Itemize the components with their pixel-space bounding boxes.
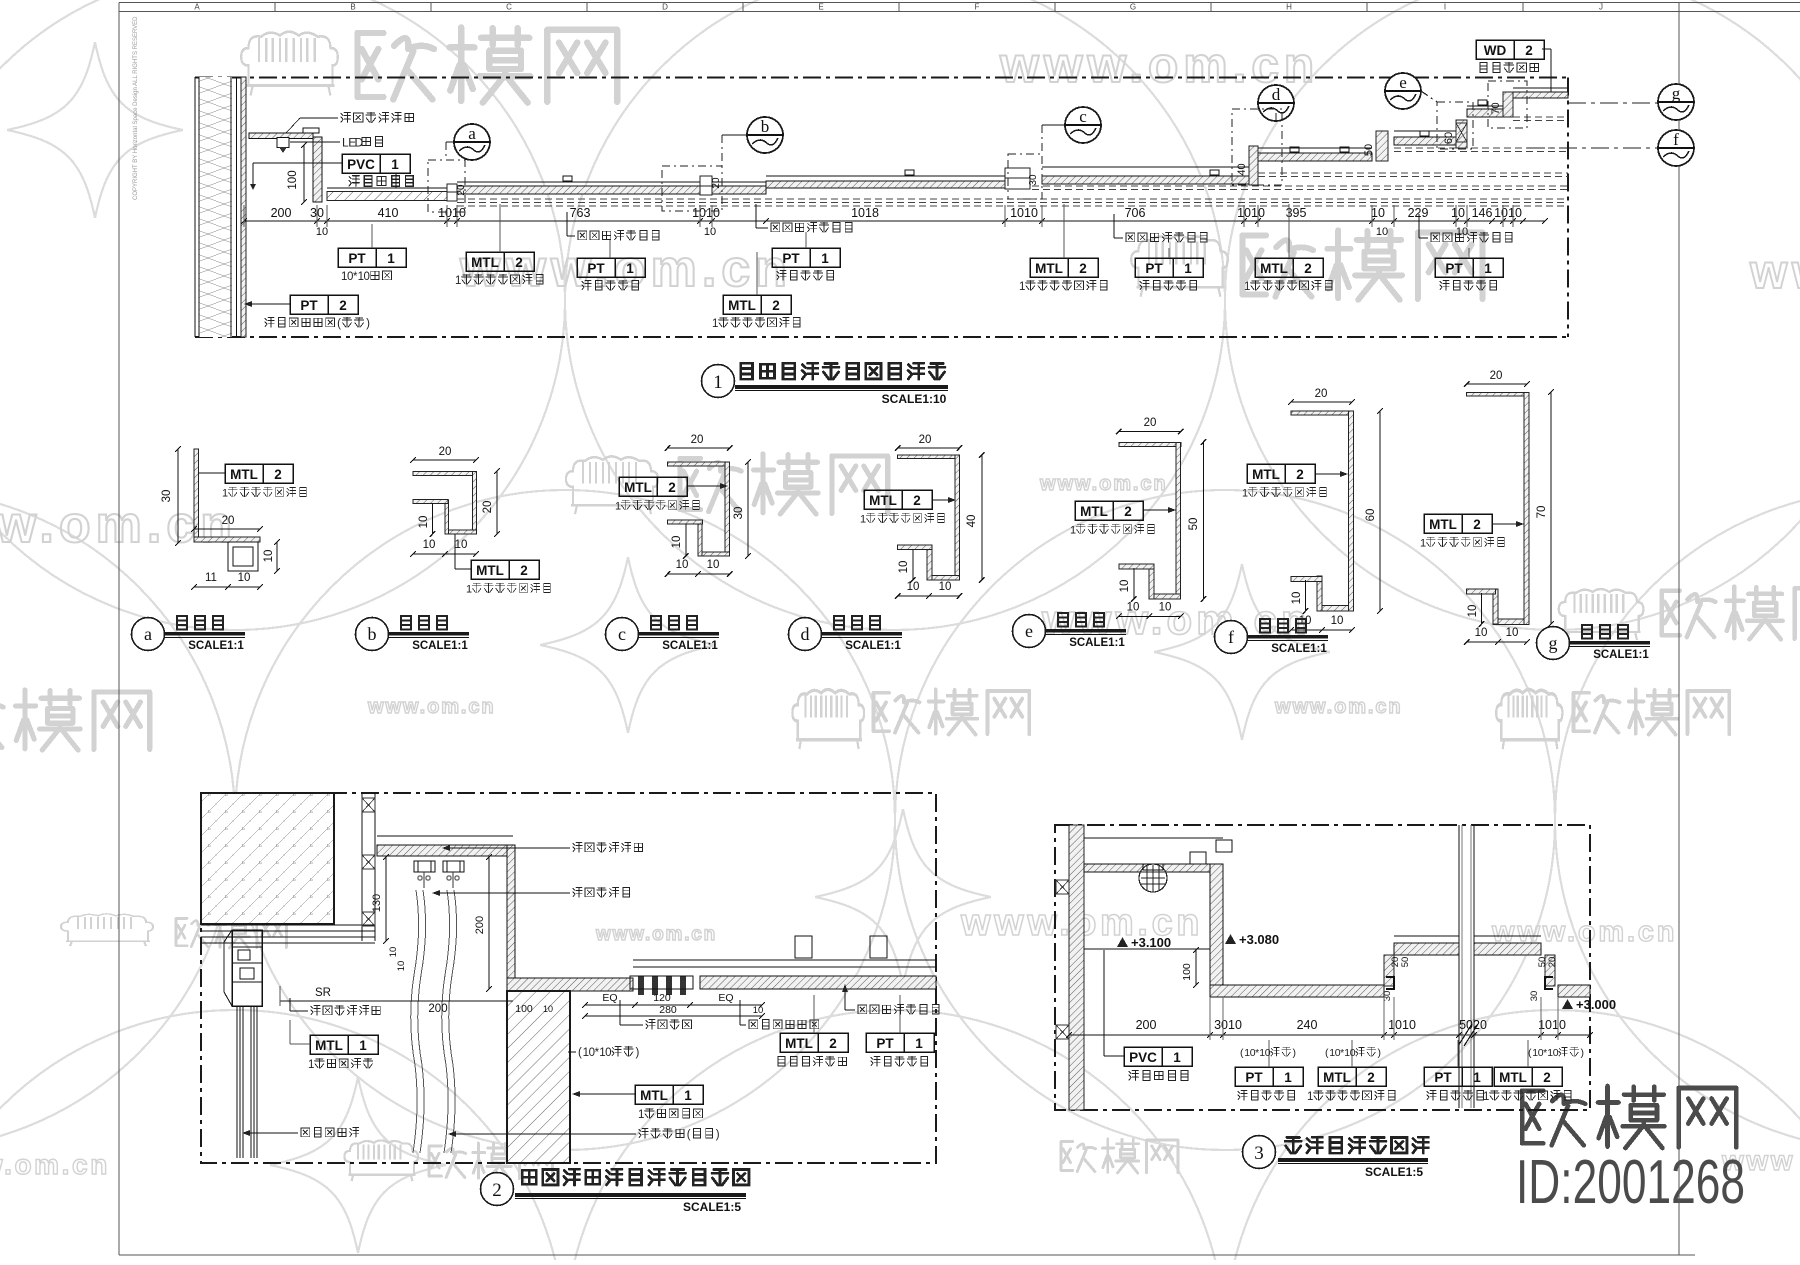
svg-text:20: 20 xyxy=(439,446,452,458)
svg-text:www.om.cn: www.om.cn xyxy=(0,1149,110,1180)
svg-text:2: 2 xyxy=(274,467,282,482)
svg-text:200: 200 xyxy=(271,206,292,220)
svg-text:2: 2 xyxy=(829,1036,837,1051)
svg-text:0: 0 xyxy=(1265,1047,1271,1059)
svg-text:SCALE1:10: SCALE1:10 xyxy=(882,392,947,406)
svg-text:f: f xyxy=(1228,627,1234,647)
svg-text:20: 20 xyxy=(1547,957,1558,968)
svg-text:MTL: MTL xyxy=(476,563,504,578)
svg-text:10: 10 xyxy=(418,516,430,529)
annotations top-left xyxy=(341,112,413,122)
svg-text:1: 1 xyxy=(1284,1070,1292,1085)
drawing 3 tags xyxy=(1124,1047,1192,1066)
svg-text:MTL: MTL xyxy=(785,1036,813,1051)
svg-text:I: I xyxy=(1444,3,1446,12)
svg-text:1: 1 xyxy=(466,584,472,596)
svg-text:10: 10 xyxy=(671,536,683,549)
drawing 2: curtain box & window casing xyxy=(201,793,936,1163)
big site watermark + id xyxy=(1522,1086,1736,1148)
svg-text:PVC: PVC xyxy=(347,157,375,172)
svg-text:+3.000: +3.000 xyxy=(1576,997,1616,1012)
svg-text:C: C xyxy=(506,3,512,12)
svg-text:1: 1 xyxy=(1420,538,1426,550)
svg-text:2: 2 xyxy=(1543,1070,1551,1085)
sheet border / ruler xyxy=(119,2,1800,4)
svg-text:10: 10 xyxy=(423,539,436,551)
svg-text:B: B xyxy=(350,3,355,12)
svg-text:): ) xyxy=(366,318,370,330)
svg-text:ID:2001268: ID:2001268 xyxy=(1516,1148,1745,1217)
profile c xyxy=(668,462,730,466)
svg-text:30: 30 xyxy=(1382,991,1393,1002)
svg-text:10: 10 xyxy=(396,961,407,972)
drawing 1: living room ceiling + light trough detail xyxy=(195,76,1568,78)
svg-text:20: 20 xyxy=(222,515,235,527)
svg-text:PT: PT xyxy=(782,251,800,266)
svg-text:10: 10 xyxy=(676,559,689,571)
svg-text:MTL: MTL xyxy=(471,255,499,270)
svg-text:1010: 1010 xyxy=(1237,206,1265,220)
svg-text:www.om.cn: www.om.cn xyxy=(1274,696,1402,718)
ceiling gypsum band segments xyxy=(457,181,766,183)
svg-text:MTL: MTL xyxy=(1252,467,1280,482)
svg-text:30: 30 xyxy=(161,490,173,503)
svg-text:0: 0 xyxy=(1350,1047,1356,1059)
svg-text:a: a xyxy=(468,124,476,143)
svg-text:PT: PT xyxy=(348,251,366,266)
svg-text:0: 0 xyxy=(605,1047,611,1059)
svg-text:2: 2 xyxy=(1473,517,1481,532)
svg-text:): ) xyxy=(716,1129,720,1141)
svg-text:10: 10 xyxy=(1119,580,1131,593)
svg-text:): ) xyxy=(1581,1047,1585,1059)
svg-text:5020: 5020 xyxy=(1459,1018,1487,1032)
svg-text:3: 3 xyxy=(1254,1143,1264,1164)
svg-text:50: 50 xyxy=(1363,144,1375,156)
svg-text:10: 10 xyxy=(316,226,328,238)
svg-text:2: 2 xyxy=(1367,1070,1375,1085)
svg-text:1: 1 xyxy=(615,501,621,513)
svg-text:MTL: MTL xyxy=(1429,517,1457,532)
svg-text:1010: 1010 xyxy=(1538,1018,1566,1032)
svg-text:g: g xyxy=(1672,84,1681,103)
svg-text:20: 20 xyxy=(1144,417,1157,429)
svg-text:(: ( xyxy=(337,318,341,330)
svg-text:SCALE1:5: SCALE1:5 xyxy=(683,1200,741,1214)
svg-text:PVC: PVC xyxy=(1129,1050,1157,1065)
svg-text:COPYRIGHT BY Horizontal Space: COPYRIGHT BY Horizontal Space Design ALL… xyxy=(133,16,139,200)
stepped risers 40/50/60/70 xyxy=(1249,146,1258,185)
svg-text:3010: 3010 xyxy=(1214,1018,1242,1032)
svg-text:60: 60 xyxy=(1443,132,1455,144)
svg-text:2: 2 xyxy=(492,1180,502,1201)
existing window frame xyxy=(232,930,262,1006)
svg-text:1: 1 xyxy=(1019,281,1025,293)
title 1 xyxy=(702,365,735,398)
svg-text:PT: PT xyxy=(300,298,318,313)
svg-text:SCALE1:1: SCALE1:1 xyxy=(1271,643,1327,655)
svg-text:SCALE1:1: SCALE1:1 xyxy=(412,640,468,652)
svg-text:EQ: EQ xyxy=(602,992,617,1004)
svg-text:10: 10 xyxy=(1456,226,1468,238)
concrete wall block xyxy=(201,793,334,924)
central wall xyxy=(1458,825,1460,1108)
svg-text:50: 50 xyxy=(1400,957,1411,968)
svg-text:1: 1 xyxy=(359,1038,367,1053)
svg-text:+3.100: +3.100 xyxy=(1131,935,1171,950)
svg-text:D: D xyxy=(662,3,668,12)
detail titles xyxy=(132,618,165,651)
svg-text:10: 10 xyxy=(1475,627,1488,639)
svg-text:b: b xyxy=(761,117,770,136)
wall with insulation xyxy=(199,77,232,337)
svg-text:10: 10 xyxy=(1376,226,1388,238)
svg-text:1: 1 xyxy=(1242,488,1248,500)
svg-text:1: 1 xyxy=(712,318,718,330)
svg-text:10: 10 xyxy=(1127,602,1140,614)
svg-text:PT: PT xyxy=(587,261,605,276)
svg-text:MTL: MTL xyxy=(624,480,652,495)
svg-text:10: 10 xyxy=(238,572,251,584)
profile g xyxy=(1467,392,1527,396)
svg-text:2: 2 xyxy=(339,298,347,313)
svg-text:10: 10 xyxy=(388,947,399,958)
dimension row xyxy=(1069,1034,1590,1036)
svg-text:(: ( xyxy=(687,1129,691,1141)
svg-text:10: 10 xyxy=(1451,206,1465,220)
svg-text:F: F xyxy=(975,3,980,12)
svg-text:2: 2 xyxy=(772,298,780,313)
svg-text:www.om.cn: www.om.cn xyxy=(367,696,495,718)
svg-text:1: 1 xyxy=(1473,1070,1481,1085)
svg-text:10: 10 xyxy=(1371,206,1385,220)
svg-text:40: 40 xyxy=(1236,163,1248,175)
svg-text:MTL: MTL xyxy=(1323,1070,1351,1085)
svg-text:PT: PT xyxy=(876,1036,894,1051)
svg-text:30: 30 xyxy=(733,507,745,520)
svg-text:MTL: MTL xyxy=(728,298,756,313)
svg-text:MTL: MTL xyxy=(1499,1070,1527,1085)
svg-text:10: 10 xyxy=(1291,592,1303,605)
svg-text:410: 410 xyxy=(378,206,399,220)
svg-text:1010: 1010 xyxy=(1494,206,1522,220)
svg-text:200: 200 xyxy=(474,916,486,934)
svg-text:1: 1 xyxy=(626,261,634,276)
svg-text:PT: PT xyxy=(1145,261,1163,276)
svg-text:(: ( xyxy=(578,1047,582,1059)
svg-text:1: 1 xyxy=(713,372,723,393)
svg-text:1: 1 xyxy=(638,1109,644,1121)
svg-text:1: 1 xyxy=(1483,1091,1489,1103)
svg-text:g: g xyxy=(1549,633,1558,653)
svg-text:e: e xyxy=(1399,73,1407,92)
svg-text:120: 120 xyxy=(653,992,671,1004)
svg-text:10: 10 xyxy=(898,561,910,574)
svg-text:c: c xyxy=(1079,107,1087,126)
svg-text:20: 20 xyxy=(691,434,704,446)
svg-text:SR: SR xyxy=(315,987,331,999)
svg-text:1: 1 xyxy=(684,1088,692,1103)
title 2 xyxy=(481,1173,514,1206)
svg-text:WD: WD xyxy=(1484,43,1507,58)
svg-text:2: 2 xyxy=(515,255,523,270)
svg-text:2: 2 xyxy=(1525,43,1533,58)
svg-text:A: A xyxy=(194,3,200,12)
svg-text:240: 240 xyxy=(1297,1018,1318,1032)
svg-text:MTL: MTL xyxy=(1080,504,1108,519)
svg-text:20: 20 xyxy=(1315,388,1328,400)
profile e xyxy=(1119,443,1181,447)
svg-text:1: 1 xyxy=(222,488,228,500)
downlight fixture xyxy=(1139,864,1167,892)
gypsum annotations xyxy=(578,230,659,240)
svg-text:E: E xyxy=(818,3,823,12)
svg-text:PT: PT xyxy=(1245,1070,1263,1085)
detail bubbles a-g xyxy=(454,124,490,160)
svg-text:100: 100 xyxy=(287,170,299,189)
svg-text:20: 20 xyxy=(711,177,722,189)
svg-text:SCALE1:1: SCALE1:1 xyxy=(1069,637,1125,649)
svg-text:SCALE1:1: SCALE1:1 xyxy=(662,640,718,652)
svg-text:70: 70 xyxy=(1536,506,1548,519)
svg-text:PT: PT xyxy=(1434,1070,1452,1085)
svg-text:0: 0 xyxy=(1553,1047,1559,1059)
svg-text:30: 30 xyxy=(1529,991,1540,1002)
curtain tracks and curtains xyxy=(414,861,435,872)
WD 2 tag xyxy=(1476,40,1544,59)
svg-text:1: 1 xyxy=(1307,1091,1313,1103)
svg-text:G: G xyxy=(1130,3,1136,12)
svg-text:1: 1 xyxy=(387,251,395,266)
svg-text:60: 60 xyxy=(1365,509,1377,522)
svg-text:MTL: MTL xyxy=(1260,261,1288,276)
wood stud strip xyxy=(361,793,363,941)
svg-text:10: 10 xyxy=(753,1005,764,1016)
svg-text:H: H xyxy=(1286,3,1292,12)
ceiling recess with LED trough xyxy=(249,133,313,139)
svg-text:10: 10 xyxy=(543,1004,553,1014)
drawing 3: bedroom ceiling detail xyxy=(1055,825,1590,1110)
svg-text:130: 130 xyxy=(371,894,383,912)
dimension line xyxy=(244,220,1545,222)
svg-text:www.om.cn: www.om.cn xyxy=(1039,473,1167,495)
svg-text:1: 1 xyxy=(391,157,399,172)
svg-text:SCALE1:1: SCALE1:1 xyxy=(1593,649,1649,661)
svg-text:SCALE1:5: SCALE1:5 xyxy=(1365,1165,1423,1179)
svg-text:10: 10 xyxy=(704,226,716,238)
ceiling with AC vent xyxy=(633,959,936,961)
svg-text:1: 1 xyxy=(1070,525,1076,537)
svg-text:20: 20 xyxy=(919,434,932,446)
svg-text:10: 10 xyxy=(1506,627,1519,639)
svg-text:2: 2 xyxy=(1124,504,1132,519)
svg-text:1: 1 xyxy=(455,275,461,287)
left wall strip xyxy=(1069,825,1084,1110)
svg-text:20: 20 xyxy=(1490,370,1503,382)
svg-text:J: J xyxy=(1599,3,1603,12)
svg-text:20: 20 xyxy=(482,501,494,514)
svg-text:1: 1 xyxy=(1173,1050,1181,1065)
step profiles xyxy=(1384,955,1394,986)
svg-text:280: 280 xyxy=(659,1004,677,1016)
svg-text:200: 200 xyxy=(428,1003,447,1015)
profile b xyxy=(413,472,476,476)
svg-text:2: 2 xyxy=(1079,261,1087,276)
svg-text:50: 50 xyxy=(1188,518,1200,531)
svg-text:1018: 1018 xyxy=(851,206,879,220)
svg-text:e: e xyxy=(1025,621,1033,641)
upper ceiling bands right xyxy=(1394,943,1459,955)
svg-text:10: 10 xyxy=(1467,605,1479,618)
svg-text:www.om.cn: www.om.cn xyxy=(595,924,717,945)
level marks xyxy=(1117,937,1128,947)
svg-text:1: 1 xyxy=(1484,261,1492,276)
svg-text:1: 1 xyxy=(308,1059,314,1071)
svg-text:): ) xyxy=(1293,1047,1297,1059)
svg-text:706: 706 xyxy=(1125,206,1146,220)
svg-text:10: 10 xyxy=(1159,602,1172,614)
svg-text:2: 2 xyxy=(668,480,676,495)
curtain box xyxy=(377,835,513,837)
svg-text:MTL: MTL xyxy=(1035,261,1063,276)
ceiling recess xyxy=(1084,864,1223,872)
svg-text:1010: 1010 xyxy=(1010,206,1038,220)
svg-text:11: 11 xyxy=(205,572,217,584)
svg-text:a: a xyxy=(144,624,152,644)
svg-text:100: 100 xyxy=(1181,963,1193,981)
svg-text:1010: 1010 xyxy=(692,206,720,220)
svg-text:1010: 1010 xyxy=(1388,1018,1416,1032)
title 3 xyxy=(1243,1136,1276,1169)
svg-text:1: 1 xyxy=(915,1036,923,1051)
svg-text:SCALE1:1: SCALE1:1 xyxy=(188,640,244,652)
svg-text:c: c xyxy=(618,624,626,644)
profile a xyxy=(194,449,199,542)
svg-text:10: 10 xyxy=(707,559,720,571)
svg-text:SCALE1:1: SCALE1:1 xyxy=(845,640,901,652)
svg-text:10: 10 xyxy=(907,581,920,593)
svg-text:1: 1 xyxy=(821,251,829,266)
svg-text:f: f xyxy=(1673,130,1679,149)
svg-text:2: 2 xyxy=(520,563,528,578)
svg-text:70: 70 xyxy=(1490,102,1502,114)
svg-text:MTL: MTL xyxy=(315,1038,343,1053)
svg-text:): ) xyxy=(636,1047,640,1059)
svg-text:PT: PT xyxy=(1445,261,1463,276)
svg-text:+3.080: +3.080 xyxy=(1239,932,1279,947)
svg-text:200: 200 xyxy=(1136,1018,1157,1032)
svg-text:MTL: MTL xyxy=(640,1088,668,1103)
svg-text:2: 2 xyxy=(1304,261,1312,276)
svg-text:229: 229 xyxy=(1408,206,1429,220)
svg-text:763: 763 xyxy=(570,206,591,220)
svg-text:b: b xyxy=(368,624,377,644)
PVC acrylic light panel xyxy=(327,187,447,189)
profile f xyxy=(1291,411,1352,415)
svg-text:): ) xyxy=(1378,1047,1382,1059)
svg-text:d: d xyxy=(801,624,810,644)
svg-text:1010: 1010 xyxy=(438,206,466,220)
profile d xyxy=(898,455,960,459)
junction blocks xyxy=(447,184,457,201)
material tags under drawing 1 xyxy=(338,248,406,267)
svg-text:ww: ww xyxy=(1749,246,1800,299)
svg-text:10: 10 xyxy=(455,539,468,551)
svg-text:2: 2 xyxy=(913,493,921,508)
svg-text:d: d xyxy=(1272,85,1281,104)
window head trims xyxy=(201,924,375,926)
svg-text:0: 0 xyxy=(364,271,370,283)
svg-text:100: 100 xyxy=(515,1003,533,1015)
window wall column hatched xyxy=(507,991,570,1163)
svg-text:1: 1 xyxy=(1244,281,1250,293)
svg-text:MTL: MTL xyxy=(230,467,258,482)
drawing 2 annotations xyxy=(573,842,642,852)
svg-text:146: 146 xyxy=(1472,206,1493,220)
svg-text:1: 1 xyxy=(860,514,866,526)
svg-text:30: 30 xyxy=(1028,174,1039,186)
PVC 1 tag xyxy=(342,154,410,173)
svg-text:2: 2 xyxy=(1296,467,1304,482)
svg-text:10: 10 xyxy=(1299,615,1312,627)
svg-text:EQ: EQ xyxy=(718,992,733,1004)
svg-text:10: 10 xyxy=(263,550,275,563)
svg-text:MTL: MTL xyxy=(869,493,897,508)
svg-text:10: 10 xyxy=(939,581,952,593)
hidden dashed lines xyxy=(457,198,1568,200)
svg-text:40: 40 xyxy=(966,515,978,528)
svg-text:10: 10 xyxy=(1331,615,1344,627)
svg-text:1: 1 xyxy=(1184,261,1192,276)
